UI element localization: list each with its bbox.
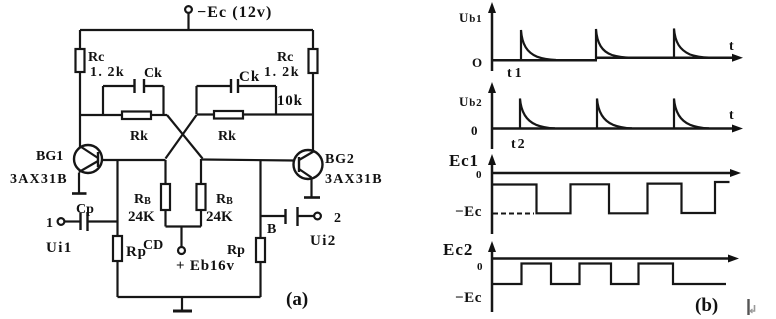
svg-text:Ub2: Ub2 bbox=[459, 94, 482, 109]
svg-text:−Ec: −Ec bbox=[455, 290, 482, 306]
wire Rk1 branch bbox=[80, 114, 167, 116]
wire bottom rail bbox=[118, 296, 261, 298]
transistor BG1 bbox=[72, 145, 102, 194]
svg-text:+ Eb16v: + Eb16v bbox=[176, 258, 235, 274]
resistor Rp2 bbox=[256, 238, 265, 297]
svg-text:3AX31B: 3AX31B bbox=[10, 172, 68, 187]
capacitor B / node 2 terminal bbox=[261, 207, 321, 226]
svg-text:Rk: Rk bbox=[218, 129, 236, 144]
svg-text:t: t bbox=[729, 39, 734, 54]
svg-text:O: O bbox=[472, 55, 482, 70]
waveform Ub1 pulses bbox=[521, 29, 709, 61]
resistor RB1 bbox=[161, 160, 170, 227]
svg-text:BG1: BG1 bbox=[36, 149, 63, 164]
wire right collector rail bbox=[312, 30, 314, 151]
svg-text:24K: 24K bbox=[206, 209, 233, 225]
svg-text:Cp: Cp bbox=[76, 202, 94, 217]
svg-text:1: 1 bbox=[46, 216, 53, 231]
svg-text:Ub1: Ub1 bbox=[459, 10, 482, 25]
svg-text:3AX31B: 3AX31B bbox=[325, 172, 383, 187]
wire left collector rail bbox=[79, 30, 81, 147]
waveform Ec2 square wave bbox=[492, 264, 726, 285]
capacitor Ck2 bbox=[197, 79, 277, 114]
resistor Rc2 bbox=[309, 49, 318, 73]
svg-text:24K: 24K bbox=[128, 209, 155, 225]
svg-text:Ec1: Ec1 bbox=[449, 151, 479, 170]
resistor Rp1 bbox=[113, 236, 122, 297]
wire Rk2 branch bbox=[197, 113, 314, 115]
wire left base-divider vertical bbox=[116, 160, 118, 236]
svg-text:2: 2 bbox=[334, 211, 341, 226]
svg-text:1. 2k: 1. 2k bbox=[264, 65, 300, 80]
svg-text:(b): (b) bbox=[695, 295, 718, 316]
svg-text:(a): (a) bbox=[286, 289, 308, 310]
power terminal -Ec bbox=[185, 6, 192, 30]
svg-text:Ui1: Ui1 bbox=[46, 240, 73, 256]
node 1 input terminal bbox=[46, 216, 80, 231]
svg-text:Ck: Ck bbox=[239, 69, 260, 85]
wire BG2 base bbox=[202, 160, 294, 161]
svg-text:Ui2: Ui2 bbox=[310, 233, 337, 249]
svg-text:RB: RB bbox=[216, 192, 233, 207]
svg-text:t1: t1 bbox=[507, 66, 525, 81]
svg-text:1. 2k: 1. 2k bbox=[90, 65, 125, 80]
svg-text:0: 0 bbox=[477, 261, 483, 273]
wire BG1 base bbox=[101, 159, 166, 161]
svg-text:Rp: Rp bbox=[126, 244, 147, 260]
waveform Ub2 pulses bbox=[520, 99, 709, 129]
wire dashed -Ec level bbox=[493, 213, 534, 215]
cursor mark bbox=[749, 299, 755, 315]
capacitor Cp bbox=[81, 212, 118, 231]
svg-text:Ck: Ck bbox=[144, 66, 162, 81]
svg-text:0: 0 bbox=[471, 123, 478, 138]
svg-text:t2: t2 bbox=[511, 137, 527, 152]
terminal +Eb bbox=[178, 247, 185, 254]
transistor BG2 bbox=[294, 150, 323, 198]
svg-text:B: B bbox=[267, 222, 276, 237]
capacitor Ck1 bbox=[103, 79, 164, 115]
svg-text:t: t bbox=[729, 108, 734, 123]
svg-text:Rc: Rc bbox=[88, 50, 104, 65]
svg-text:Rp: Rp bbox=[227, 243, 245, 258]
waveform Ub2 axes bbox=[488, 82, 743, 149]
svg-text:−Ec (12v): −Ec (12v) bbox=[197, 4, 272, 21]
resistor Rk1 bbox=[122, 112, 151, 120]
svg-text:10k: 10k bbox=[277, 93, 303, 109]
svg-text:Ec2: Ec2 bbox=[443, 240, 473, 259]
resistor Rk2 bbox=[214, 111, 243, 119]
wire right base-divider vertical bbox=[259, 160, 261, 238]
waveform Ub1 axes bbox=[488, 2, 743, 71]
resistor Rc1 bbox=[76, 49, 85, 72]
waveform Ec1 axes bbox=[488, 154, 741, 234]
wire RB common bbox=[166, 227, 202, 248]
wire cross-coupling diagonal D1 bbox=[167, 115, 203, 159]
svg-text:Rk: Rk bbox=[130, 129, 148, 144]
svg-text:RB: RB bbox=[134, 192, 151, 207]
svg-text:−Ec: −Ec bbox=[455, 204, 482, 220]
wire top rail bbox=[80, 29, 313, 31]
waveform Ec1 square wave bbox=[493, 182, 730, 213]
wire cross-coupling diagonal D2 bbox=[166, 115, 197, 159]
svg-text:0: 0 bbox=[476, 169, 482, 181]
waveform Ec2 axes bbox=[488, 241, 739, 312]
svg-text:BG2: BG2 bbox=[325, 152, 355, 167]
resistor RB2 bbox=[197, 159, 206, 227]
ground bbox=[173, 297, 192, 311]
svg-text:Rc: Rc bbox=[277, 50, 293, 65]
